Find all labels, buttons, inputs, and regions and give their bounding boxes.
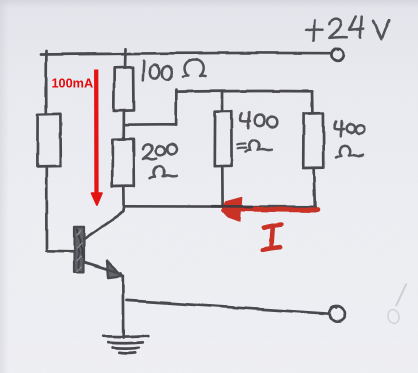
transistor Q1 emitter lead (84, 262, 122, 274)
wire: 400 ohm right bottom lead (314, 168, 315, 207)
resistor 200 ohm (112, 139, 134, 186)
label 400 ohm (right) (335, 121, 366, 157)
resistor 400 ohm (right) (303, 113, 324, 168)
wire: left branch vertical (bottom) (45, 167, 48, 251)
wire: emitter to ground vertical (122, 276, 125, 338)
wire: 100 ohm top lead (124, 49, 127, 68)
terminal: output (bottom right) (330, 306, 345, 321)
wire: left branch vertical (top) (45, 51, 48, 114)
red label I (263, 225, 282, 250)
resistor 100 ohm (114, 67, 134, 111)
wire: branch riser (175, 90, 178, 125)
label +24V (306, 17, 389, 41)
wire: top +24V rail (41, 53, 330, 55)
wire: emitter to output terminal (127, 300, 329, 313)
label 400 ohm (left) (237, 113, 278, 152)
wire: 400 ohm right top lead (311, 92, 314, 113)
wire: branch to 400 ohm pair (horizontal) (124, 123, 176, 126)
wire: 100 ohm to 200 ohm vertical (122, 111, 125, 139)
wire: upper rail of 400 ohm pair (176, 90, 312, 93)
transistor Q1 collector lead (84, 207, 124, 240)
wire: lower rail (collector node to 400 ohm pair) (124, 205, 315, 208)
label 100 ohm (143, 59, 206, 80)
terminal: +24V (331, 48, 343, 60)
resistor 400 ohm (left) (214, 111, 231, 166)
transistor Q1 emitter arrowhead (107, 261, 123, 278)
transistor Q1 base bar (74, 227, 84, 273)
svg-text:100mA: 100mA (52, 77, 94, 91)
wire: 400 ohm left bottom lead (221, 166, 224, 206)
red current arrow 100mA (vertical) (92, 70, 102, 206)
resistor left (unlabeled) (37, 114, 60, 167)
wire: 400 ohm left top lead (221, 92, 224, 111)
wire: base lead (47, 249, 75, 252)
wire: lower rail segment crossing the arrowhead (212, 205, 252, 208)
ground (103, 336, 148, 354)
label 200 ohm (143, 144, 178, 178)
red current arrow I (horizontal, pointing left) (222, 198, 317, 221)
wire: 200 ohm bottom lead (122, 186, 125, 206)
